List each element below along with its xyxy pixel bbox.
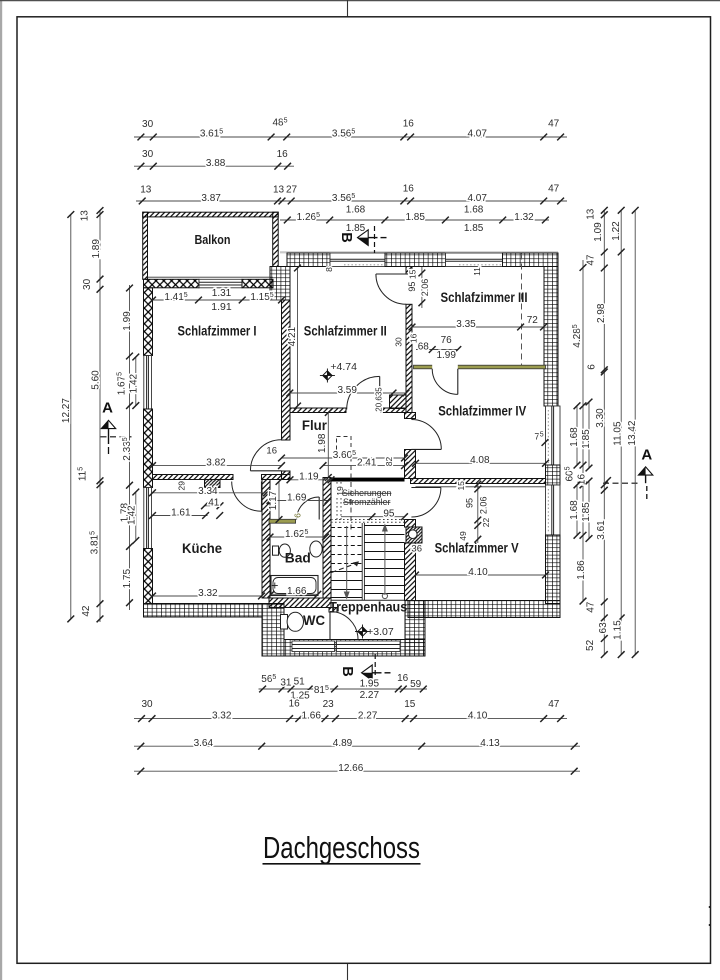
svg-text:1.69: 1.69	[287, 492, 307, 503]
door II jamb block	[390, 395, 407, 409]
entry opening lines	[292, 644, 400, 646]
svg-text:Flur: Flur	[302, 418, 328, 433]
dim 1.66 tub	[271, 593, 318, 595]
fold mark top	[347, 0, 349, 17]
svg-text:11: 11	[472, 267, 482, 276]
fuse dim 95	[341, 516, 405, 518]
dim row B3	[134, 745, 580, 747]
window E1 frame	[546, 406, 561, 465]
svg-text:Stromzähler: Stromzähler	[343, 497, 390, 507]
svg-text:36: 36	[411, 543, 422, 554]
balcony floor edge	[148, 276, 273, 278]
dim row T1	[134, 136, 567, 138]
svg-text:15: 15	[456, 481, 466, 491]
svg-text:23: 23	[323, 699, 335, 710]
balcony door opening	[199, 279, 242, 288]
dim row T2	[134, 165, 294, 167]
svg-text:2.98: 2.98	[596, 303, 607, 323]
window E1 glass	[551, 406, 553, 465]
svg-text:1.68: 1.68	[346, 204, 366, 215]
window W1 glass	[146, 356, 148, 410]
svg-text:1.42: 1.42	[128, 373, 139, 393]
svg-text:Dachgeschoss: Dachgeschoss	[263, 830, 420, 865]
door bath arc	[297, 497, 320, 520]
svg-text:41: 41	[208, 498, 220, 509]
svg-text:1.19: 1.19	[299, 472, 319, 483]
fuse wall solid black	[331, 478, 405, 482]
wall stair east block	[405, 601, 425, 657]
section A right tick	[604, 477, 611, 484]
dim row B2	[134, 718, 567, 720]
wall balcony-sill east part	[242, 279, 273, 288]
svg-text:1.91: 1.91	[211, 301, 232, 313]
hall dashed line down	[350, 457, 352, 533]
dim 3.60 hall	[282, 457, 405, 459]
window N1 glass	[330, 258, 385, 260]
svg-text:27: 27	[286, 184, 298, 195]
title underline	[263, 863, 421, 865]
window W2 glass	[146, 488, 148, 549]
section A right stem	[645, 475, 647, 483]
svg-text:B: B	[339, 666, 355, 676]
svg-text:Schlafzimmer V: Schlafzimmer V	[435, 541, 519, 556]
section A left dashed	[101, 436, 132, 438]
svg-text:1.66: 1.66	[301, 710, 321, 721]
dim 1.98 rot hall	[327, 413, 329, 478]
svg-text:47: 47	[548, 699, 560, 710]
svg-text:4.10: 4.10	[468, 710, 488, 721]
svg-text:1.99: 1.99	[122, 311, 133, 331]
svg-text:22: 22	[481, 518, 491, 528]
svg-text:1.85: 1.85	[581, 502, 592, 522]
svg-text:1.66: 1.66	[287, 586, 307, 597]
wall west upper	[144, 288, 153, 356]
green wall bath top	[269, 519, 296, 523]
svg-text:12.66: 12.66	[338, 763, 363, 774]
dim subchain E-win1b	[588, 402, 590, 468]
svg-text:1.68: 1.68	[569, 500, 580, 520]
door III/IV leaf	[457, 369, 459, 395]
section A left arrow	[101, 420, 115, 428]
svg-text:30: 30	[142, 119, 154, 130]
svg-text:29: 29	[176, 481, 186, 491]
svg-text:Schlafzimmer II: Schlafzimmer II	[304, 324, 387, 339]
svg-text:+3.07: +3.07	[367, 626, 394, 638]
door room I arc	[250, 440, 281, 471]
section B top tail	[368, 237, 377, 239]
svg-text:20,635: 20,635	[374, 387, 383, 412]
svg-text:72: 72	[527, 315, 539, 326]
wall II/III lower	[406, 304, 412, 412]
wall II/III top block	[406, 267, 412, 275]
svg-text:3.32: 3.32	[198, 588, 218, 599]
svg-text:59: 59	[410, 679, 422, 690]
roof line room III dashed	[521, 254, 523, 366]
bath sink	[310, 541, 322, 557]
svg-text:30: 30	[82, 278, 93, 290]
svg-text:Schlafzimmer IV: Schlafzimmer IV	[438, 404, 526, 419]
wall II/hall west part	[290, 408, 346, 413]
dim subchain E-win2a	[576, 485, 578, 535]
dim chain R4	[634, 210, 636, 654]
section B bottom tail	[372, 672, 381, 674]
dim 41	[205, 505, 221, 507]
dim 1.69 bath door	[270, 500, 328, 502]
svg-text:1.89: 1.89	[91, 239, 102, 259]
wall hall/V block	[405, 520, 416, 528]
svg-text:2.27: 2.27	[360, 690, 380, 701]
svg-text:16: 16	[266, 445, 277, 456]
wall balcony-sill west part	[144, 279, 200, 288]
svg-text:47: 47	[586, 601, 597, 613]
fuse area dotted left	[336, 482, 338, 522]
door III/IV arc	[432, 369, 458, 395]
wall I/II upper	[282, 300, 291, 440]
svg-text:3.30: 3.30	[595, 408, 606, 428]
section A right dashed	[603, 482, 641, 484]
svg-text:8: 8	[324, 267, 334, 272]
entry opening 1	[292, 641, 335, 652]
door kitchen leaf	[261, 482, 263, 512]
section A left stem	[108, 429, 110, 444]
svg-text:2.06: 2.06	[420, 279, 430, 297]
paper top edge	[0, 0, 720, 2]
svg-text:4.10: 4.10	[468, 567, 488, 578]
wall hall/IV upper block	[405, 413, 416, 419]
svg-text:3.59: 3.59	[337, 385, 357, 396]
dim 1.61	[153, 515, 208, 517]
svg-text:Schlafzimmer III: Schlafzimmer III	[441, 290, 528, 305]
door room III leaf	[376, 273, 406, 275]
svg-text:52: 52	[585, 639, 596, 651]
svg-text:16: 16	[397, 673, 409, 684]
green wall III/IV	[414, 365, 546, 369]
stair walk line left	[346, 526, 348, 594]
door room II leaf	[379, 376, 381, 409]
wall hall/IV lower	[405, 450, 416, 479]
svg-text:1.31: 1.31	[212, 288, 232, 299]
wall WC west block	[262, 604, 284, 657]
svg-text:47: 47	[586, 254, 597, 266]
level mark II	[320, 375, 335, 377]
svg-text:95: 95	[407, 282, 417, 292]
svg-text:1.86: 1.86	[576, 560, 587, 580]
green door gap	[432, 364, 458, 370]
door room II arc	[347, 376, 380, 409]
window E2 glass	[551, 485, 553, 535]
dim 4.21 rot room II	[297, 268, 299, 406]
bath toilet	[273, 546, 279, 555]
wall IV/V lower face	[416, 486, 546, 488]
svg-text:1.85: 1.85	[346, 223, 366, 234]
dim 2.41 hall	[323, 465, 405, 467]
wall I/kitchen west part	[153, 475, 234, 480]
stair treads	[361, 523, 363, 600]
dim door III rot labels	[421, 267, 423, 308]
door kitchen arc	[232, 482, 262, 512]
wall top-north segment a	[287, 253, 330, 267]
svg-text:3.34: 3.34	[198, 486, 218, 497]
hall dashed shaft rect	[337, 437, 352, 457]
wall entry south	[284, 640, 425, 657]
svg-text:WC: WC	[303, 613, 325, 628]
dim chain L1b window2	[135, 492, 137, 541]
window W1 frame	[144, 356, 152, 410]
dim 1.62 bath	[270, 536, 326, 538]
svg-text:Treppenhaus: Treppenhaus	[329, 599, 407, 614]
window N1 frame	[330, 253, 385, 267]
wall east lower	[546, 535, 561, 604]
fuse area dotted bottom	[331, 519, 405, 521]
svg-text:1.17: 1.17	[268, 490, 279, 510]
svg-text:49: 49	[458, 531, 468, 541]
svg-text:2.06: 2.06	[478, 497, 488, 515]
svg-text:4.89: 4.89	[333, 738, 353, 749]
roof edge gray line	[280, 251, 558, 253]
svg-text:95: 95	[383, 509, 395, 520]
svg-text:13: 13	[273, 184, 285, 195]
dim 4.08 room IV	[416, 462, 546, 464]
svg-text:1.15: 1.15	[612, 620, 623, 640]
wall top-north segment b	[385, 253, 446, 267]
dim 3.32 kitchen	[153, 595, 262, 597]
svg-text:4.13: 4.13	[480, 738, 500, 749]
border mark 2	[709, 924, 711, 926]
svg-text:16: 16	[403, 118, 415, 129]
vent shaft block	[406, 527, 422, 543]
svg-text:3.32: 3.32	[212, 710, 232, 721]
svg-text:1.98: 1.98	[317, 433, 328, 453]
vent shaft circle	[409, 530, 418, 539]
dim chain L2	[99, 211, 101, 623]
wall bath/WC	[269, 598, 331, 608]
wall I/II lower	[282, 471, 291, 480]
svg-text:1.61: 1.61	[171, 507, 191, 518]
dim chain R1	[582, 260, 584, 601]
WC toilet	[281, 615, 288, 630]
dim 1.17 rot	[278, 482, 280, 520]
dim 4.10 room V	[416, 574, 546, 576]
svg-text:Küche: Küche	[182, 541, 222, 556]
svg-text:16: 16	[289, 698, 301, 709]
entry opening 2	[337, 641, 401, 652]
door WC arc	[330, 612, 358, 640]
dim chain L3	[70, 215, 72, 619]
door room V leaf	[411, 487, 441, 489]
svg-text:+4.74: +4.74	[330, 361, 357, 373]
svg-text:12.27: 12.27	[61, 398, 72, 423]
svg-text:4.08: 4.08	[470, 455, 490, 466]
svg-text:1.75: 1.75	[122, 569, 133, 589]
door bath leaf	[318, 497, 320, 520]
svg-text:5.60: 5.60	[90, 370, 101, 390]
svg-text:30: 30	[142, 149, 154, 160]
window E2 frame	[546, 485, 561, 535]
svg-text:Balkon: Balkon	[195, 232, 231, 247]
svg-text:A: A	[641, 447, 652, 464]
svg-text:1.22: 1.22	[611, 221, 622, 241]
wall west lower	[144, 549, 153, 604]
dim row T3	[136, 200, 567, 202]
section A right arrow	[638, 467, 652, 475]
wall kitchen/hall vertical	[262, 480, 270, 599]
wall south under room V	[408, 601, 560, 618]
stair cut line	[332, 563, 359, 573]
wall I/kitchen east part	[262, 475, 291, 480]
door WC leaf	[329, 612, 331, 640]
svg-text:1.42: 1.42	[127, 505, 138, 525]
svg-text:13: 13	[586, 208, 597, 220]
svg-text:1.95: 1.95	[360, 678, 380, 689]
fold mark bottom	[347, 963, 349, 980]
level mark stair	[355, 631, 370, 633]
wall east mid block	[546, 465, 561, 485]
wall II/hall east part	[381, 408, 407, 413]
section B top dashed	[374, 226, 376, 253]
svg-text:95: 95	[465, 498, 475, 508]
section B top arrow	[358, 230, 369, 246]
wall hall/stair west	[323, 478, 331, 599]
svg-text:16: 16	[403, 184, 415, 195]
svg-text:3.87: 3.87	[201, 193, 221, 204]
section B bottom arrow	[362, 665, 373, 681]
stair walk line right	[384, 527, 386, 595]
paper left edge	[0, 0, 2, 980]
door room I leaf	[250, 470, 281, 472]
svg-text:2.41: 2.41	[357, 457, 377, 468]
svg-text:30: 30	[394, 337, 404, 347]
dim chain L1	[129, 285, 131, 610]
dim I1 room I top	[153, 299, 282, 301]
svg-text:15: 15	[408, 269, 418, 279]
wall NW corner block	[270, 267, 290, 301]
svg-text:68: 68	[418, 341, 430, 352]
svg-text:51: 51	[294, 676, 306, 687]
section B bottom dashed	[374, 654, 376, 682]
svg-text:82: 82	[384, 457, 394, 467]
balcony north parapet	[143, 212, 279, 217]
svg-text:15: 15	[404, 699, 416, 710]
svg-text:13: 13	[79, 210, 90, 222]
svg-text:6: 6	[293, 513, 303, 518]
svg-text:76: 76	[441, 335, 453, 346]
svg-text:3.35: 3.35	[456, 319, 476, 330]
dim 3.82	[153, 465, 282, 467]
wall west middle	[144, 409, 153, 488]
chimney block	[205, 480, 221, 488]
dim 3.34	[153, 492, 267, 494]
svg-text:6: 6	[587, 364, 598, 370]
balcony east parapet	[273, 212, 279, 266]
svg-text:Bad: Bad	[285, 550, 311, 565]
svg-text:3.64: 3.64	[194, 738, 214, 749]
wall IV/V	[411, 479, 546, 484]
svg-text:13: 13	[140, 184, 152, 195]
window N2 frame	[446, 253, 503, 267]
wall WC/stair block	[329, 608, 337, 613]
dim green door row	[416, 349, 458, 351]
dim 3.35 72 room III	[412, 326, 544, 328]
svg-text:3.82: 3.82	[206, 457, 226, 468]
svg-text:16: 16	[409, 333, 419, 343]
border mark 1	[709, 906, 711, 908]
svg-text:2.27: 2.27	[358, 710, 378, 721]
dim chain R3	[620, 210, 622, 654]
svg-text:Schlafzimmer I: Schlafzimmer I	[178, 324, 257, 339]
door room IV leaf	[411, 448, 441, 450]
svg-text:31: 31	[280, 677, 292, 688]
dim row T4	[280, 219, 549, 221]
dim 1.19 hall	[290, 479, 331, 481]
svg-text:47: 47	[548, 118, 560, 129]
svg-text:1.85: 1.85	[405, 212, 425, 223]
svg-text:13.42: 13.42	[627, 420, 638, 445]
balcony west parapet	[143, 212, 148, 279]
wall south under kitchen	[144, 604, 263, 618]
svg-text:1.85: 1.85	[581, 429, 592, 449]
window W2 frame	[144, 488, 152, 549]
dim subchain E-win1a	[576, 406, 578, 465]
door V dim lines	[477, 484, 479, 544]
svg-text:1.09: 1.09	[593, 222, 604, 242]
dim subchain E-win2b	[588, 481, 590, 539]
dim chain R2	[603, 210, 605, 654]
svg-text:1.68: 1.68	[569, 427, 580, 447]
dim chain L1b window1	[135, 357, 137, 406]
wall top-north segment c	[503, 253, 559, 267]
svg-text:3.88: 3.88	[206, 158, 226, 169]
svg-text:4.07: 4.07	[467, 129, 487, 140]
svg-text:1.32: 1.32	[514, 212, 534, 223]
section A right dash down	[646, 486, 648, 501]
svg-text:A: A	[102, 400, 113, 417]
wall stair/V lower	[405, 543, 416, 601]
svg-text:42: 42	[81, 605, 92, 617]
svg-text:1.99: 1.99	[436, 350, 456, 361]
dim 3.59 room II	[290, 392, 406, 394]
svg-text:47: 47	[548, 184, 560, 195]
svg-text:63: 63	[598, 622, 609, 634]
door room V arc	[411, 488, 441, 518]
svg-text:3.61: 3.61	[596, 520, 607, 540]
door room IV arc	[411, 420, 441, 450]
door room III arc	[376, 274, 406, 304]
wall east upper	[544, 267, 558, 407]
dim row B1	[259, 688, 428, 690]
section A left stem dash	[108, 447, 110, 454]
svg-text:16: 16	[277, 149, 289, 160]
svg-text:1.68: 1.68	[464, 204, 484, 215]
svg-text:4.21: 4.21	[287, 326, 298, 346]
balcony door lines	[199, 281, 242, 283]
dim row B4	[134, 770, 580, 772]
bathtub	[271, 576, 318, 596]
svg-text:1.85: 1.85	[464, 223, 484, 234]
window N2 glass	[446, 258, 503, 260]
svg-text:30: 30	[141, 699, 153, 710]
svg-text:11.05: 11.05	[613, 421, 624, 446]
svg-text:4.07: 4.07	[467, 193, 487, 204]
